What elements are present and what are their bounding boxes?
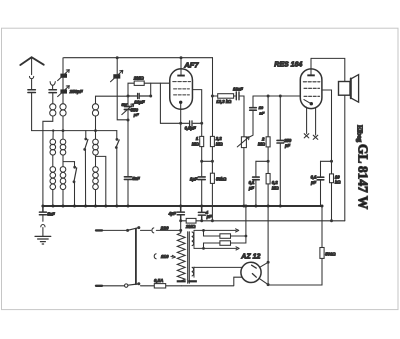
capacitor 10nF coupling: [236, 92, 239, 100]
wire P2 to cap: [52, 85, 54, 89]
node B+ screen: [211, 219, 214, 222]
node A2 top tap: [62, 129, 65, 132]
svg-text:10nF: 10nF: [233, 86, 243, 91]
AF7 grid2 dashes: [174, 94, 190, 96]
potentiometer volume: [241, 137, 246, 148]
speaker cone: [352, 75, 359, 103]
RES164 grid2 dashes: [304, 95, 320, 97]
node 250pF branch: [279, 95, 282, 98]
switch S3: [116, 131, 118, 140]
AF7 grid dashes: [174, 88, 190, 90]
wire 1M to 1uF: [201, 147, 203, 177]
node heater top: [202, 229, 205, 232]
svg-text:MΩ: MΩ: [192, 141, 200, 146]
resistor 2MOhm bleeder: [186, 218, 196, 223]
resistor 0.2MOhm: [266, 174, 270, 184]
inductor A1 coils: [50, 104, 56, 110]
switch link bar: [135, 229, 137, 285]
B+ line: [181, 220, 345, 222]
svg-text:12,3 kΩ: 12,3 kΩ: [216, 99, 232, 104]
svg-text:MΩ: MΩ: [216, 141, 224, 146]
resistor 2.2MOhm: [210, 136, 214, 146]
wire R-a right: [231, 235, 246, 237]
wire y161 link: [202, 160, 213, 162]
capacitor 4uF filter 1: [177, 206, 184, 221]
wire speaker return: [344, 95, 346, 221]
node y161 left: [200, 160, 203, 163]
svg-text:10μF: 10μF: [134, 99, 145, 104]
wire padder column: [127, 96, 129, 176]
node y161 right: [211, 160, 214, 163]
svg-text:MΩ: MΩ: [258, 142, 266, 147]
svg-text:0,1: 0,1: [311, 175, 317, 180]
node A1 mid tap: [52, 129, 54, 131]
wire top bus AF7 anode: [64, 57, 213, 59]
svg-text:pF: pF: [133, 112, 139, 117]
wire grid line RES164: [253, 95, 300, 97]
capacitor 0.5uF: [190, 121, 192, 126]
variable capacitor V3 tuning: [113, 74, 120, 78]
node grid RC right: [149, 95, 152, 98]
capacitor 4uF filter 2: [198, 206, 205, 221]
wire cap to coil A1: [52, 93, 54, 103]
node B+ cap2: [200, 219, 203, 222]
resistor dropper b: [220, 241, 231, 246]
svg-text:10: 10: [335, 174, 340, 179]
svg-text:4μF: 4μF: [168, 211, 177, 216]
node top wire V3: [116, 56, 119, 59]
svg-text:RES 164: RES 164: [274, 62, 302, 69]
transformer core: [188, 232, 190, 283]
wire anode to speaker: [311, 58, 345, 81]
svg-text:μF: μF: [248, 185, 255, 190]
switch mains top pivot: [126, 229, 129, 232]
pin X mark left: [304, 134, 309, 138]
resistor 1MOhm: [200, 136, 204, 146]
wire A1 bottom to rail: [52, 190, 54, 206]
resistor 2MOhm grid leak: [128, 83, 170, 96]
wire branch3: [62, 58, 64, 104]
RES164 anode dashes: [303, 81, 320, 83]
wire filament to AZ12: [194, 266, 242, 268]
wire mains bottom: [102, 285, 181, 287]
socket arc 110: [154, 254, 156, 259]
antenna: [20, 57, 43, 65]
svg-text:0,2: 0,2: [272, 180, 279, 185]
node AZ12 cathode bottom: [267, 283, 270, 286]
capacitor input 2: [49, 90, 56, 93]
capacitor 0.1uF: [253, 177, 260, 180]
wire tap to resistor R-a: [204, 230, 220, 236]
wire heater top arrow: [194, 229, 239, 232]
fuse 0.5A: [154, 284, 165, 288]
switch mains top lever: [128, 228, 138, 231]
node cathode/cap junction: [179, 122, 182, 125]
speaker driver box: [339, 82, 351, 96]
svg-text:5nF: 5nF: [47, 211, 55, 216]
wire 10nF shunt branch: [249, 96, 253, 137]
AZ12 plate stroke lower: [252, 274, 256, 278]
AF7 anode dashes: [173, 81, 191, 83]
svg-text:kΩ: kΩ: [335, 180, 341, 185]
wire A2 tier1-tier2: [62, 116, 64, 139]
wire 0.1uF branch: [255, 161, 257, 206]
wire padder to rail: [127, 180, 129, 206]
wire B1 top to grid RC: [96, 96, 129, 103]
switch mains bottom lever: [128, 284, 138, 285]
node B1 tap: [94, 129, 97, 132]
wire A1 tier2-tier3: [52, 155, 54, 167]
svg-text:220: 220: [160, 225, 169, 231]
svg-text:Elbeg: Elbeg: [355, 125, 363, 143]
AF7 cathode dot: [179, 101, 182, 104]
svg-text:1μF: 1μF: [190, 176, 198, 181]
node screen/cap junction: [200, 122, 203, 125]
svg-text:10: 10: [259, 105, 264, 110]
wire AZ12 anode diagonals: [259, 262, 268, 284]
wire 110 tap arrow: [171, 255, 176, 258]
wire RES164 anode lead: [310, 58, 312, 74]
wire 1uF to rail: [201, 180, 203, 206]
svg-text:μF: μF: [206, 214, 213, 219]
svg-text:0,5A: 0,5A: [154, 278, 163, 283]
wire B1 tier2-tier3: [95, 155, 97, 167]
svg-text:250pF: 250pF: [69, 89, 83, 94]
wire mains top: [102, 229, 181, 231]
wire V3 branch: [117, 58, 128, 120]
svg-text:GL 8147 W: GL 8147 W: [355, 144, 370, 210]
wire RES164 anode out: [322, 90, 332, 174]
plug connector P2: [50, 82, 55, 86]
transformer primary winding: [177, 233, 185, 281]
transformer heater winding: [193, 230, 195, 248]
wire AF7 screen right: [192, 90, 201, 137]
svg-text:50kΩ: 50kΩ: [216, 177, 227, 182]
resistor 10kOhm: [330, 174, 334, 183]
wire 0.1uF link: [256, 160, 268, 162]
wire B+ tap to primary: [180, 221, 182, 233]
plug connector P1: [30, 76, 34, 80]
tube RES164 envelope: [300, 69, 322, 109]
wire antenna lead: [31, 57, 33, 74]
wire A1 tier2 top: [52, 131, 54, 140]
wire 0.1uF right branch: [320, 161, 322, 206]
svg-text:0,5μF: 0,5μF: [185, 126, 197, 131]
wire screen feed column: [211, 58, 213, 221]
plug connector chassis: [41, 215, 45, 236]
wire AF7 anode lead: [180, 58, 182, 75]
capacitor 10uF grid: [128, 93, 151, 98]
capacitor 5nF chassis: [39, 206, 46, 215]
wire heater bottom arrow: [194, 247, 239, 250]
variable capacitor C-ant2 250pF: [60, 89, 67, 93]
wire 0.5uF link: [160, 122, 201, 124]
mains terminal bottom: [96, 285, 102, 287]
wire B1 bottom to rail: [95, 190, 97, 206]
node y161 2M/0.2M: [267, 160, 270, 163]
capacitor 1uF: [198, 177, 205, 180]
svg-text:AF7: AF7: [183, 61, 199, 70]
resistor 2MOhm vertical: [266, 137, 270, 147]
wire RES164 filament pins: [307, 107, 316, 135]
variable capacitor 50/550pF: [124, 107, 131, 110]
node heater bottom: [202, 247, 205, 250]
socket arc 220: [152, 228, 154, 233]
wire pot to rail: [243, 148, 245, 206]
RES164 cathode stroke and dot: [304, 100, 310, 104]
svg-text:0,1: 0,1: [249, 180, 255, 185]
switch mains bottom pivot circle: [125, 284, 128, 287]
tube AZ12 envelope: [241, 262, 261, 282]
inductor A2 coils: [60, 104, 66, 110]
transformer rectifier winding: [193, 267, 195, 277]
RES164 anode bar: [307, 74, 315, 76]
capacitor 250pF: [277, 140, 284, 143]
wire RC right riser: [150, 83, 152, 96]
node anode y161: [330, 160, 333, 163]
svg-text:pF: pF: [284, 143, 291, 148]
AZ12 plate stroke upper: [252, 265, 257, 268]
node oscillator junction: [127, 119, 130, 122]
wire AF7 cathode down: [180, 104, 182, 207]
wire A1 tier1 bottom jog to ground rail: [43, 116, 53, 206]
wire 10k to B+: [331, 183, 333, 221]
capacitor 10nF shunt: [250, 108, 257, 111]
svg-text:nF: nF: [259, 111, 264, 116]
svg-text:110: 110: [161, 254, 169, 260]
svg-text:AZ 12: AZ 12: [240, 254, 260, 261]
rail junction dots: [41, 205, 323, 208]
wire y161 link right: [321, 160, 332, 162]
resistor 12.3kOhm: [218, 94, 234, 99]
node 12.3k tap: [211, 95, 214, 98]
svg-text:2MΩ: 2MΩ: [133, 76, 144, 81]
capacitor 0.1uF right: [317, 177, 324, 180]
resistor 50kOhm: [210, 173, 214, 183]
ground: [35, 236, 51, 244]
svg-text:5nF: 5nF: [132, 176, 140, 181]
ground rail: [43, 205, 322, 207]
transformer winding end bars: [177, 280, 186, 282]
node grid RC left: [127, 95, 130, 98]
wire A2 tier2 to S2 jog: [63, 155, 75, 167]
node 2M branch: [267, 95, 270, 98]
wire coupling line left: [212, 96, 244, 137]
pin X mark right: [313, 135, 318, 139]
node top wire AF7 anode: [180, 56, 183, 59]
speaker diaphragm: [350, 79, 352, 99]
svg-text:MΩ: MΩ: [272, 185, 280, 190]
svg-text:2MΩ: 2MΩ: [185, 224, 196, 229]
switch S1: [85, 131, 87, 139]
wire band select line: [32, 130, 117, 132]
capacitor antenna series: [28, 90, 36, 93]
wire grid tap to cathode cap: [159, 83, 161, 123]
node B+ left: [179, 219, 182, 222]
wire AZ12 feed column: [267, 206, 269, 285]
capacitor 5nF padder: [124, 177, 131, 180]
node B+ speaker return: [330, 219, 333, 222]
variable capacitor C-ant1: [60, 74, 67, 78]
AF7 anode bar: [177, 75, 185, 77]
wire 2M column: [267, 96, 269, 206]
resistor 500Ohm column: [268, 206, 322, 285]
wire B2 jog to rail: [96, 156, 106, 206]
wire R-b right riser: [231, 206, 246, 243]
node AZ12 anode top: [267, 261, 270, 264]
wire antenna down to band line: [31, 80, 33, 130]
inductor B1 coils: [92, 104, 98, 110]
RES164 grid dashes: [304, 87, 320, 89]
svg-text:μF: μF: [310, 180, 317, 185]
mains terminal top: [96, 229, 102, 231]
svg-text:500Ω: 500Ω: [325, 251, 336, 256]
wire AZ12 lower left step: [181, 277, 242, 286]
node R-a: [245, 235, 248, 238]
wire B1 tier1-tier2: [95, 116, 97, 139]
wire 250pF column: [279, 96, 281, 206]
wire A2 bottom to rail: [62, 190, 64, 206]
node primary top: [179, 229, 182, 232]
resistor dropper a: [220, 234, 231, 239]
tube AF7 envelope: [170, 69, 193, 110]
wire tap to resistor R-b: [204, 243, 220, 248]
switch S2: [74, 162, 76, 167]
